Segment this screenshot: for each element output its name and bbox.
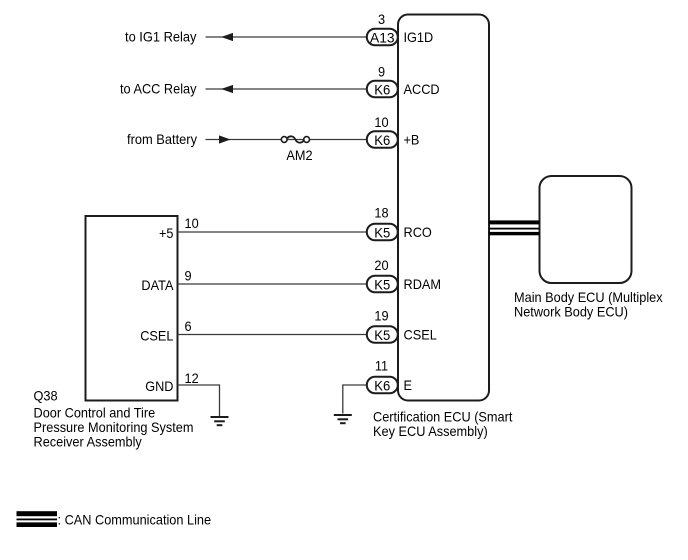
svg-text:ACCD: ACCD — [404, 81, 440, 97]
svg-text:A13: A13 — [370, 30, 395, 46]
connector pin K6 (+B) — [367, 131, 398, 148]
svg-text:K5: K5 — [374, 277, 390, 293]
connector pin K6 (E) — [367, 377, 398, 394]
svg-text:: CAN Communication Line: : CAN Communication Line — [58, 512, 212, 528]
svg-text:19: 19 — [374, 308, 388, 324]
connector pin K5 (RCO) — [367, 224, 398, 241]
svg-text:K6: K6 — [374, 132, 390, 148]
svg-text:from Battery: from Battery — [127, 131, 197, 147]
svg-text:20: 20 — [374, 257, 388, 273]
svg-text:CSEL: CSEL — [140, 328, 173, 344]
svg-text:Key ECU Assembly): Key ECU Assembly) — [373, 423, 488, 439]
svg-text:3: 3 — [378, 11, 385, 27]
connector pin K6 (ACCD) — [367, 81, 398, 98]
wire to ACC Relay — [206, 88, 368, 90]
svg-text:9: 9 — [185, 268, 192, 284]
connector pin A13 (IG1D) — [367, 29, 398, 46]
svg-text:6: 6 — [185, 318, 192, 334]
fuse AM2 — [281, 136, 309, 142]
svg-text:K6: K6 — [374, 378, 390, 394]
arrowhead from Battery — [219, 135, 231, 143]
connector pin K5 (RDAM) — [367, 276, 398, 293]
Q38 Door Control and Tire Pressure Monitoring System Receiver Assembly box — [86, 216, 178, 401]
connector pin K5 (CSEL) — [367, 326, 398, 343]
svg-text:11: 11 — [375, 358, 388, 374]
arrowhead to ACC Relay — [221, 85, 233, 93]
svg-text:RDAM: RDAM — [404, 276, 442, 292]
svg-text:Receiver Assembly: Receiver Assembly — [34, 433, 142, 449]
svg-text:to IG1 Relay: to IG1 Relay — [125, 29, 197, 45]
wire DATA to RDAM — [178, 283, 368, 285]
wire E to ground — [343, 385, 367, 414]
svg-text:10: 10 — [374, 114, 388, 130]
svg-text:GND: GND — [145, 378, 173, 394]
Certification ECU (Smart Key ECU Assembly) box — [398, 15, 489, 401]
svg-text:K5: K5 — [374, 327, 390, 343]
svg-text:Network Body ECU): Network Body ECU) — [514, 303, 628, 319]
svg-text:CSEL: CSEL — [404, 327, 437, 343]
svg-text:RCO: RCO — [404, 224, 432, 240]
wire CSEL to CSEL — [178, 334, 368, 336]
ground (Q38 GND) — [211, 417, 229, 425]
arrowhead to IG1 Relay — [221, 33, 233, 41]
svg-text:DATA: DATA — [141, 277, 174, 293]
svg-text:Q38: Q38 — [34, 387, 58, 403]
svg-text:K6: K6 — [374, 82, 390, 98]
svg-text:IG1D: IG1D — [404, 29, 434, 45]
svg-text:9: 9 — [378, 63, 385, 79]
svg-text:10: 10 — [185, 215, 199, 231]
wire to IG1 Relay — [206, 36, 368, 38]
svg-text:+B: +B — [404, 132, 420, 148]
wire GND to ground — [178, 385, 220, 416]
svg-text:+5: +5 — [159, 225, 174, 241]
svg-text:AM2: AM2 — [286, 147, 312, 163]
wire from Battery — [206, 139, 368, 141]
CAN bus lines between ECUs — [489, 220, 540, 235]
ground (Certification ECU E) — [334, 415, 352, 423]
svg-text:12: 12 — [185, 370, 199, 386]
svg-text:18: 18 — [374, 205, 388, 221]
CAN communication line legend symbol — [17, 511, 58, 527]
wire +5 to RCO — [178, 231, 368, 233]
svg-text:K5: K5 — [374, 225, 390, 241]
svg-text:to ACC Relay: to ACC Relay — [120, 81, 197, 97]
Main Body ECU (Multiplex Network Body ECU) box — [540, 176, 632, 283]
svg-text:E: E — [404, 377, 413, 393]
